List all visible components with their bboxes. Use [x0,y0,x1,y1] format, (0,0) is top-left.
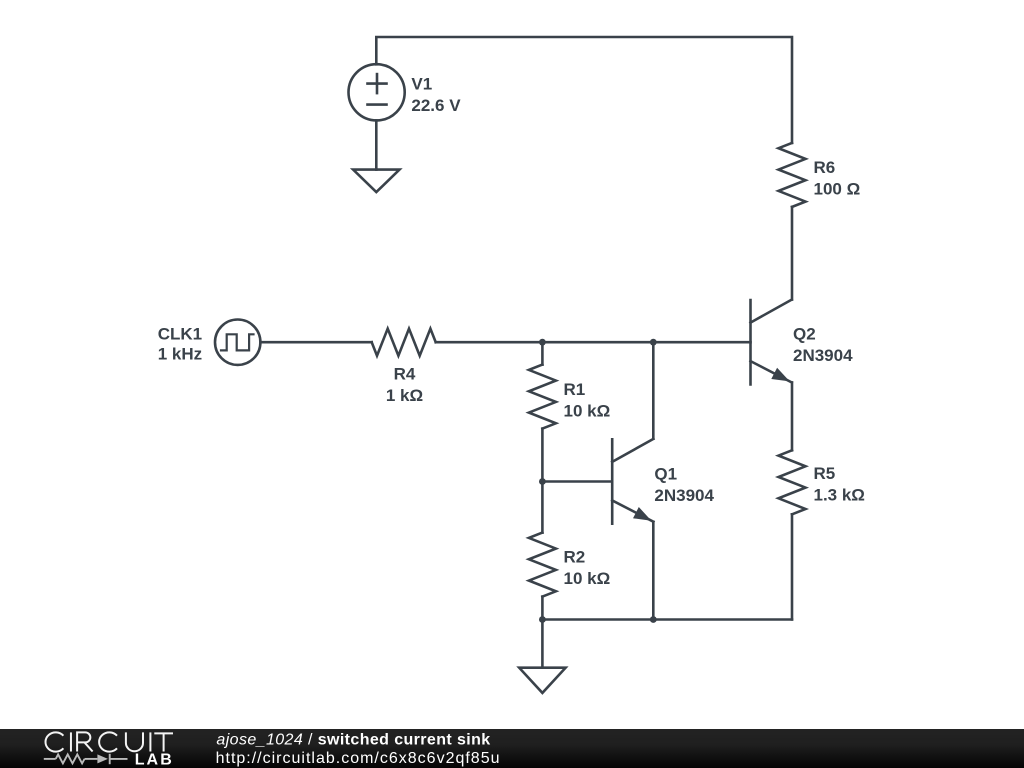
wire V1 minus to ground [375,120,378,169]
resistor R2 [529,533,556,597]
wire R5 to bottom rail [791,514,794,619]
wire bottom rail to ground [541,620,544,668]
wire node B to Q1 base [542,480,612,483]
ground at bottom rail [519,668,565,693]
node B junction (R1/R2/Q1 base) [539,478,546,485]
svg-text:LAB: LAB [135,751,174,768]
wire R2 to bottom rail [541,597,544,620]
wire top rail from V1 to R6 [376,37,792,143]
wire Q2 emitter to R5 [791,382,794,450]
footer title text [216,732,501,768]
wire node A down to R1 [541,342,544,364]
wire node B down to R2 [541,482,544,533]
bottom rail junction at Q1 emitter [650,616,657,623]
wire CLK1 to R4 [260,341,371,344]
resistor R4 [372,329,436,356]
voltage source V1 [349,64,405,120]
wire R1 to node B [541,429,544,482]
ground under V1 [353,170,399,193]
resistor R5 [779,450,806,514]
clock source CLK1 [215,320,260,365]
footer bar [0,729,1024,768]
svg-text:http://circuitlab.com/c6x8c6v2: http://circuitlab.com/c6x8c6v2qf85u [216,750,501,767]
wire R4 to Q2 base [436,341,751,344]
svg-text:ajose_1024 / switched current: ajose_1024 / switched current sink [216,732,490,749]
CircuitLab logo resistor-diode glyph [44,754,128,764]
wire Q1 emitter down to bottom rail [652,522,655,620]
node A junction (R4/R1/base wire) [539,339,546,346]
bottom rail junction at ground [539,616,546,623]
transistor Q2 [751,300,792,385]
transistor Q1 [612,439,653,524]
resistor R1 [529,365,556,429]
wire Q1 collector up to node C [652,342,655,438]
CircuitLab logo wordmark CIRCUIT (hand-drawn thin strokes) [46,732,173,751]
resistor R6 [779,143,806,207]
wire R6 to Q2 collector [791,207,794,300]
wire bottom rail [542,618,792,621]
node C junction (Q1 collector on base wire) [650,339,657,346]
